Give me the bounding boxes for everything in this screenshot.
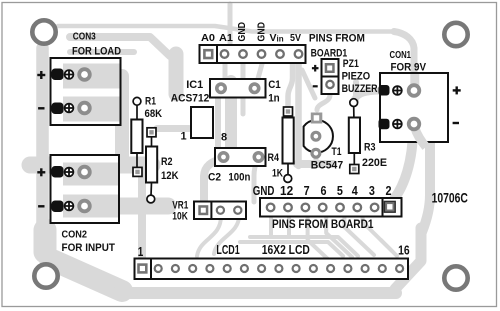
resistor R4 top square pad bbox=[284, 107, 293, 116]
J2 pin 7 bbox=[302, 204, 310, 212]
CON3 plus label bbox=[37, 71, 45, 79]
svg-text:100n: 100n bbox=[228, 171, 250, 183]
CON3 terminal 2 screw bbox=[65, 104, 74, 113]
IC U1 body bbox=[191, 107, 213, 138]
CON2 terminal 1 lead bbox=[52, 166, 64, 178]
wire top-right corner down bbox=[394, 32, 414, 89]
wire CON1 top to R3 bbox=[354, 91, 381, 101]
wire R3 column up bbox=[353, 82, 359, 100]
svg-text:BOARD1: BOARD1 bbox=[311, 47, 348, 59]
wire LCD fan 4 bbox=[363, 213, 392, 251]
svg-text:T1: T1 bbox=[332, 146, 342, 158]
svg-text:1K: 1K bbox=[272, 168, 283, 180]
CON3 minus label bbox=[38, 107, 44, 109]
connector CON3 body bbox=[51, 58, 121, 125]
svg-text:16: 16 bbox=[398, 243, 410, 257]
svg-text:10706C: 10706C bbox=[432, 191, 468, 206]
PZ1 plus label bbox=[312, 65, 319, 72]
wire LCD fan 5 bbox=[381, 240, 397, 256]
wire CON3 label band bbox=[70, 37, 170, 56]
wire CON2 band right bbox=[119, 198, 168, 215]
T1 pin2 pad bbox=[312, 132, 320, 140]
CON2 terminal 1 pad bbox=[79, 167, 90, 178]
svg-text:FOR 9V: FOR 9V bbox=[391, 62, 427, 74]
header J2 bottom box bbox=[260, 198, 402, 217]
wire column down to LCD bbox=[138, 168, 146, 258]
J2 divider bbox=[382, 198, 384, 217]
wire LCD fan 3 bbox=[344, 213, 374, 255]
wire R2 pad to IC1 band bbox=[157, 125, 189, 132]
mounting hole top-left bbox=[32, 20, 55, 43]
wire C2 left pad to VR1 bbox=[204, 159, 222, 201]
J2 pin 12 bbox=[284, 204, 292, 212]
wire band under BC547 bbox=[297, 160, 333, 168]
LCD pins 2-16 bbox=[155, 265, 403, 272]
R3 bottom square pad bbox=[350, 165, 359, 174]
J2 pin 6 bbox=[319, 204, 327, 212]
J2 pin 3 bbox=[371, 204, 379, 212]
R2 wire top bbox=[151, 137, 153, 147]
wire CON2 interior pours bbox=[63, 174, 118, 206]
J2 pin 2 square pad bbox=[384, 201, 395, 212]
VR1 pin2 bbox=[217, 207, 224, 214]
wire T1 pin3 stub bbox=[314, 156, 319, 165]
svg-text:IC1: IC1 bbox=[186, 79, 203, 91]
header J1 pin1 square pad bbox=[203, 49, 213, 59]
wire header stub GND2 top bbox=[228, 4, 233, 45]
wire PZ1 to T1 bbox=[317, 95, 330, 110]
svg-text:16X2 LCD: 16X2 LCD bbox=[262, 243, 310, 257]
wire header stub A1 down bbox=[241, 63, 246, 114]
wire 5V to T1 diagonal bbox=[302, 70, 315, 98]
svg-text:R1: R1 bbox=[145, 95, 156, 107]
CON2 plus label bbox=[37, 168, 45, 176]
CON2 terminal 2 pad bbox=[79, 201, 90, 212]
svg-text:BUZZER: BUZZER bbox=[342, 83, 378, 95]
wire bottom-left diagonal band bbox=[50, 259, 122, 291]
R3 wire top bbox=[353, 106, 355, 118]
transistor T1 body bbox=[304, 120, 333, 153]
CON2 terminal 1 screw bbox=[65, 168, 74, 177]
svg-text:1: 1 bbox=[181, 131, 187, 143]
wire bottom-right corner band bbox=[395, 228, 421, 289]
svg-text:C1: C1 bbox=[268, 79, 281, 91]
resistor R3 top pad bbox=[350, 99, 358, 107]
CON1 terminal 1 pad bbox=[409, 85, 420, 96]
CON1 terminal 1 screw bbox=[393, 86, 402, 95]
CON2 terminal 2 screw bbox=[65, 202, 74, 211]
R4 body bbox=[283, 118, 294, 164]
PZ1 square pad bbox=[325, 63, 335, 73]
J2 pin 5 bbox=[336, 204, 344, 212]
wire bottom header stubs bbox=[271, 213, 289, 237]
T1 pin3 pad bbox=[312, 149, 320, 157]
wire CON3 interior pours bbox=[63, 76, 120, 109]
svg-text:FOR INPUT: FOR INPUT bbox=[62, 242, 116, 254]
LCD pin1 square pad bbox=[137, 263, 147, 273]
svg-text:PINS FROM BOARD1: PINS FROM BOARD1 bbox=[272, 217, 374, 231]
CON3 terminal 1 lead bbox=[52, 69, 64, 81]
wire CON1 bottom S-band bbox=[394, 128, 413, 199]
svg-text:GND: GND bbox=[256, 22, 268, 42]
CON1 plus label bbox=[453, 86, 461, 94]
mounting hole bottom-right bbox=[444, 266, 467, 289]
PZ1 minus label bbox=[313, 85, 318, 87]
CON3 terminal 1 screw bbox=[65, 70, 74, 79]
capacitor C1 body bbox=[210, 79, 266, 98]
svg-text:1n: 1n bbox=[268, 93, 280, 105]
svg-text:2: 2 bbox=[386, 184, 392, 198]
svg-text:CON1: CON1 bbox=[390, 49, 412, 61]
svg-text:R3: R3 bbox=[364, 142, 376, 154]
R4 bottom pad bbox=[284, 175, 292, 183]
VR1 pin3 bbox=[234, 207, 241, 214]
svg-text:1: 1 bbox=[138, 245, 144, 259]
wire C2 right pad down bbox=[254, 160, 258, 202]
connector CON1 body bbox=[380, 73, 448, 142]
wire: copper traces (light gray) bbox=[30, 4, 430, 293]
R1 wire top bbox=[136, 105, 138, 120]
svg-text:GND: GND bbox=[236, 22, 248, 42]
svg-text:8: 8 bbox=[221, 132, 227, 144]
header J1 top box bbox=[200, 45, 306, 63]
J2 pin 4 bbox=[354, 204, 362, 212]
wire 5V column down past T1 bbox=[295, 63, 302, 166]
potentiometer VR1 box bbox=[194, 202, 246, 220]
header J1 pin4 bbox=[258, 50, 266, 58]
CON1 terminal 2 screw bbox=[393, 120, 402, 129]
wire bottom rail bbox=[115, 287, 396, 299]
C2 pad left bbox=[219, 153, 227, 161]
resistor R1 top pad bbox=[133, 97, 141, 105]
wire header stub GND down bbox=[257, 64, 263, 84]
svg-text:PZ1: PZ1 bbox=[343, 58, 359, 70]
wire VR1 to LCD curves bbox=[197, 216, 221, 256]
svg-text:FOR LOAD: FOR LOAD bbox=[72, 46, 121, 58]
CON1 terminal 2 pad bbox=[409, 119, 420, 130]
CON3 terminal 2 pad bbox=[79, 103, 90, 114]
LCD header box bbox=[135, 259, 409, 280]
wire FOR LOAD band bbox=[70, 49, 134, 55]
mounting hole top-right bbox=[444, 23, 467, 46]
svg-text:CON3: CON3 bbox=[73, 31, 96, 43]
svg-text:5: 5 bbox=[337, 184, 343, 198]
svg-text:6: 6 bbox=[321, 184, 327, 198]
svg-text:Vin: Vin bbox=[270, 32, 284, 44]
svg-text:220E: 220E bbox=[362, 157, 387, 169]
svg-text:ACS712: ACS712 bbox=[171, 93, 210, 105]
resistor R2 top square pad bbox=[147, 128, 156, 137]
wire VR1 to LCD curve 2 bbox=[214, 216, 239, 254]
svg-text:7: 7 bbox=[304, 184, 310, 198]
J2 pin GND bbox=[267, 204, 275, 212]
header J1 pin2 bbox=[221, 50, 229, 58]
R3 wire bottom bbox=[353, 153, 355, 165]
wire R4 column bbox=[288, 63, 293, 106]
svg-text:5V: 5V bbox=[290, 32, 301, 44]
VR1 pin1 square pad bbox=[198, 205, 208, 215]
svg-text:PINS FROM: PINS FROM bbox=[309, 32, 365, 44]
wire between headers h2 bbox=[240, 242, 343, 256]
R4 wire bottom bbox=[287, 164, 289, 176]
svg-text:12K: 12K bbox=[161, 170, 179, 182]
mounting hole bottom-left bbox=[34, 264, 57, 287]
VR1 divider bbox=[210, 202, 212, 220]
R2 bottom pad bbox=[147, 195, 155, 203]
CON1 terminal 1 lead bbox=[379, 85, 390, 96]
wire left vertical rail bbox=[36, 48, 49, 232]
header J1 pin1 divider bbox=[216, 45, 218, 63]
svg-text:12: 12 bbox=[280, 184, 293, 198]
svg-text:68K: 68K bbox=[145, 108, 163, 120]
svg-text:3: 3 bbox=[369, 184, 375, 198]
CON2 minus label bbox=[38, 205, 44, 207]
svg-text:4: 4 bbox=[352, 184, 358, 198]
wire between headers h1 bbox=[250, 237, 358, 256]
wire C1-C2 left column bbox=[215, 92, 221, 154]
wire mid horizontal band bbox=[30, 157, 152, 174]
svg-text:10K: 10K bbox=[172, 211, 188, 223]
svg-text:CON2: CON2 bbox=[62, 229, 88, 241]
wire top rail bbox=[58, 26, 396, 32]
svg-text:R2: R2 bbox=[161, 156, 173, 168]
R2 wire bottom bbox=[150, 183, 153, 196]
wire LCD fan 2 bbox=[326, 213, 352, 257]
capacitor C2 body bbox=[215, 148, 266, 166]
svg-text:C2: C2 bbox=[208, 171, 221, 183]
wire header stub A0 down bbox=[223, 63, 228, 83]
LCD divider bbox=[150, 259, 152, 280]
connector CON2 body bbox=[51, 155, 120, 223]
wire right-side band bbox=[422, 128, 430, 232]
CON1 minus label bbox=[453, 122, 459, 124]
R1 body bbox=[131, 120, 142, 154]
C2 pad right bbox=[254, 153, 262, 161]
R3 body bbox=[349, 118, 360, 154]
wire LCD fan 1 bbox=[308, 213, 330, 261]
R2 body bbox=[146, 147, 157, 183]
CON1 terminal 2 lead bbox=[379, 119, 390, 130]
buzzer PZ1 header box bbox=[322, 59, 339, 94]
header J1 pin3 bbox=[239, 50, 247, 58]
C1 pad right bbox=[250, 84, 258, 92]
svg-text:BC547: BC547 bbox=[311, 160, 343, 172]
R1 bottom square pad bbox=[133, 167, 142, 176]
PZ1 round pad bbox=[326, 81, 333, 88]
header J1 pin6 bbox=[295, 50, 303, 58]
CON3 terminal 1 pad bbox=[79, 69, 90, 80]
wire CON3 terminals column bbox=[115, 76, 129, 158]
C1 pad left bbox=[217, 84, 225, 92]
wire C1 body band bbox=[225, 81, 237, 148]
svg-text:R4: R4 bbox=[268, 152, 280, 164]
svg-text:PIEZO: PIEZO bbox=[342, 71, 371, 83]
CON3 terminal 2 lead bbox=[52, 103, 64, 115]
svg-text:LCD1: LCD1 bbox=[216, 243, 239, 257]
R1 wire bottom bbox=[136, 153, 138, 168]
T1 pin1 square pad bbox=[311, 113, 323, 124]
wire left rail lower wedge bbox=[34, 230, 57, 252]
CON2 terminal 2 lead bbox=[52, 201, 64, 213]
svg-text:GND: GND bbox=[253, 184, 275, 198]
wire CON1 interior trace bbox=[415, 74, 427, 147]
header J1 pin5 bbox=[276, 50, 284, 58]
wire IC1 column band bbox=[169, 54, 184, 94]
svg-text:A1: A1 bbox=[219, 32, 233, 44]
svg-text:A0: A0 bbox=[201, 32, 215, 44]
PZ1 divider bbox=[322, 76, 339, 78]
